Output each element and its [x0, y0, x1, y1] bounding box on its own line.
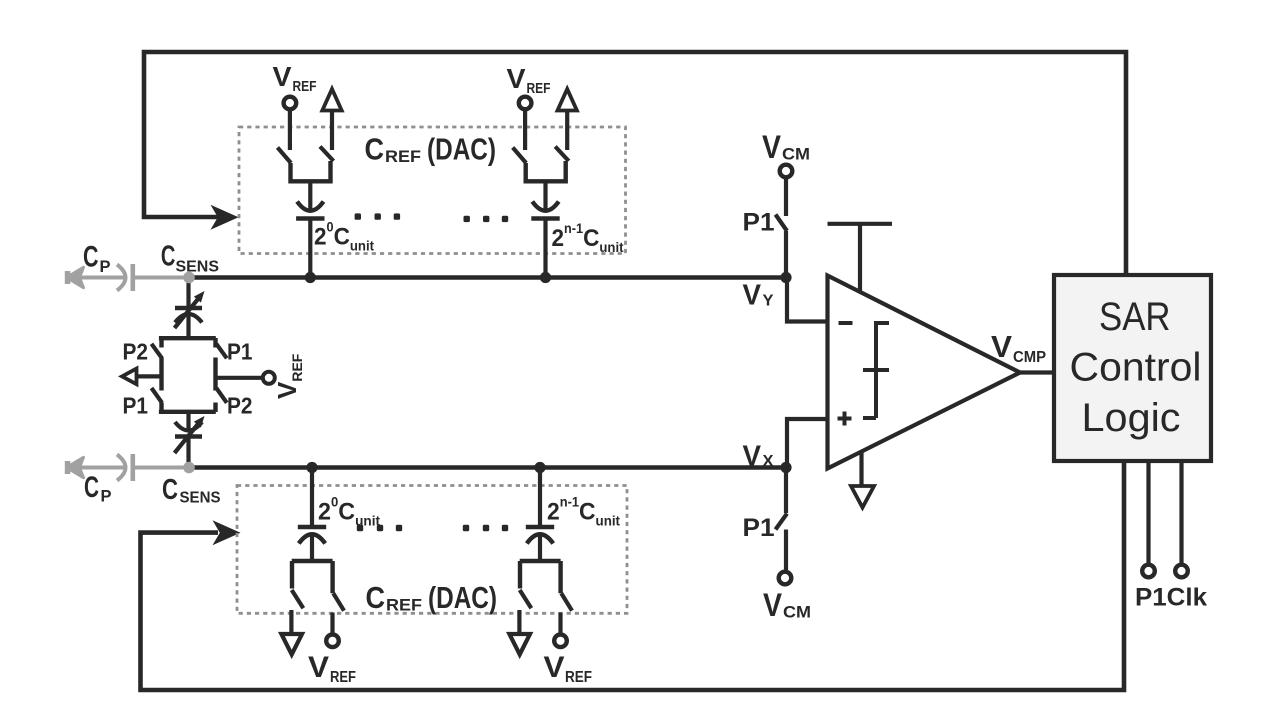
svg-text:REF: REF: [293, 78, 317, 95]
svg-text:P1: P1: [123, 393, 149, 419]
svg-text:P2: P2: [123, 339, 149, 365]
svg-text:V: V: [763, 587, 783, 623]
svg-text:CM: CM: [783, 603, 811, 622]
svg-text:SENS: SENS: [180, 490, 221, 507]
svg-text:P1Clk: P1Clk: [1135, 584, 1207, 612]
svg-text:REF: REF: [386, 597, 422, 615]
svg-text:V: V: [762, 129, 782, 165]
svg-text:20Cunit: 20Cunit: [318, 495, 380, 529]
svg-text:Y: Y: [763, 293, 774, 310]
svg-text:P1: P1: [743, 514, 775, 542]
svg-text:REF: REF: [565, 669, 592, 686]
svg-text:REF: REF: [385, 148, 421, 166]
svg-text:C: C: [83, 241, 99, 274]
svg-text:P2: P2: [227, 393, 253, 419]
svg-text:X: X: [763, 453, 774, 470]
svg-text:P: P: [101, 488, 112, 506]
svg-text:P: P: [100, 258, 111, 276]
svg-text:CM: CM: [782, 145, 810, 164]
svg-text:P1: P1: [743, 209, 775, 237]
svg-text:V: V: [544, 651, 565, 684]
svg-text:C: C: [161, 241, 176, 273]
svg-text:Logic: Logic: [1082, 396, 1181, 440]
svg-text:C: C: [162, 474, 178, 506]
svg-text:SAR: SAR: [1099, 295, 1171, 339]
svg-text:VREF: VREF: [272, 353, 305, 399]
svg-text:2n-1Cunit: 2n-1Cunit: [552, 221, 624, 255]
svg-text:V: V: [743, 280, 762, 312]
svg-text:C: C: [84, 471, 99, 504]
svg-text:REF: REF: [330, 669, 356, 686]
svg-text:V: V: [991, 329, 1012, 364]
svg-text:SENS: SENS: [176, 259, 220, 276]
svg-text:C: C: [365, 132, 385, 167]
svg-text:P1: P1: [227, 339, 253, 365]
svg-text:2n-1Cunit: 2n-1Cunit: [547, 495, 620, 529]
svg-text:C: C: [366, 580, 386, 615]
svg-text:Control: Control: [1070, 346, 1202, 390]
svg-text:20Cunit: 20Cunit: [314, 220, 374, 254]
svg-text:V: V: [308, 651, 329, 684]
svg-text:V: V: [507, 63, 526, 94]
svg-text:V: V: [743, 441, 762, 473]
svg-text:REF: REF: [527, 80, 551, 97]
svg-text:(DAC): (DAC): [427, 132, 496, 167]
svg-text:V: V: [273, 61, 292, 92]
svg-text:(DAC): (DAC): [428, 580, 497, 615]
svg-text:CMP: CMP: [1013, 349, 1046, 366]
